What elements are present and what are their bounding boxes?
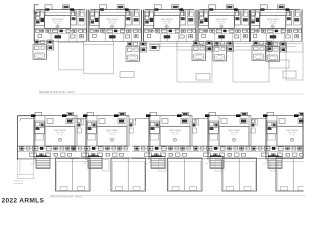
right margin mask	[304, 108, 308, 194]
rule under upper caption	[39, 93, 304, 95]
garage pair GA5	[276, 158, 311, 191]
garage pair GA4	[222, 158, 257, 191]
svg-text:2022 ARMLS: 2022 ARMLS	[2, 198, 45, 205]
patio/terrace square P1	[59, 43, 84, 70]
porch stub PS2	[103, 160, 110, 172]
bath/fixture cluster B3 (upper row)	[192, 41, 213, 61]
fixture boxes FB2	[152, 46, 157, 49]
floor-plan unit T3 (upper level)	[143, 5, 196, 42]
bath/fixture cluster B1 (upper row)	[33, 40, 54, 60]
fixture boxes FB1	[150, 45, 159, 51]
patio/terrace square P4	[233, 50, 269, 82]
bath/fixture cluster B6 (upper row)	[266, 42, 287, 62]
balcony box BB1	[269, 60, 289, 68]
patio/terrace square P5	[286, 52, 303, 80]
floor-plan unit G4 (ground level)	[191, 112, 258, 168]
floor-plan unit G5 (ground level)	[249, 112, 316, 168]
porch stub PS3	[159, 160, 167, 172]
patio P1 wall ties	[59, 42, 84, 43]
garage pair GA1	[56, 158, 91, 191]
patio/terrace square P3	[177, 50, 212, 82]
garage pair GA2	[111, 158, 146, 191]
floor-plan unit G2 (ground level)	[69, 112, 136, 168]
svg-text:SECOND FLOOR PLAN - UNITS: SECOND FLOOR PLAN - UNITS	[39, 91, 75, 94]
balcony box BB3	[196, 74, 210, 81]
bath/fixture cluster B2 (upper row)	[126, 42, 147, 62]
hall lines above patios	[142, 42, 302, 49]
patio/terrace square P2	[84, 45, 114, 74]
patio P2 wall ties	[84, 42, 114, 45]
bath/fixture cluster B4 (upper row)	[213, 42, 234, 62]
patio P4 wall ties	[233, 42, 269, 51]
entry porch PO1	[17, 160, 33, 179]
top row left end wall	[34, 5, 39, 13]
bottom row right wall	[302, 115, 304, 158]
balcony box BB2	[120, 72, 134, 78]
floor-plan unit G3 (ground level)	[132, 112, 199, 168]
porch stub PS4	[215, 160, 221, 172]
patio P3 wall ties	[177, 42, 212, 51]
porch steps	[14, 181, 23, 184]
balcony box BB4	[283, 71, 296, 78]
floor-plan unit T2 (upper level)	[89, 5, 142, 42]
rule under ground caption	[50, 195, 306, 197]
bottom row left wall	[17, 116, 31, 160]
floor-plan unit T5 (upper level)	[249, 5, 302, 42]
floor-plan unit T1 (upper level)	[34, 5, 87, 42]
porch stub PS5	[270, 160, 276, 172]
svg-text:FIRST FLOOR PLAN - UNITS: FIRST FLOOR PLAN - UNITS	[50, 196, 82, 199]
floor-plan unit T4 (upper level)	[198, 5, 251, 42]
patio P5 wall ties	[286, 42, 303, 53]
floor-plan unit G1 (ground level)	[17, 112, 84, 168]
garage pair GA3	[168, 158, 203, 191]
bath/fixture cluster B5 (upper row)	[252, 41, 273, 61]
